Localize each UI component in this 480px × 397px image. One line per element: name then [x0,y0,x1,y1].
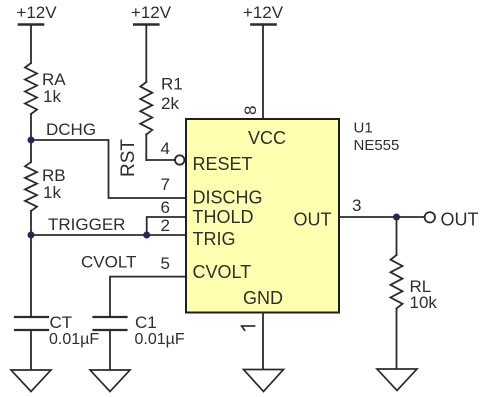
svg-text:TRIGGER: TRIGGER [48,215,125,234]
svg-text:5: 5 [161,254,170,273]
svg-text:2k: 2k [161,94,179,113]
capacitor CT [15,317,48,330]
terminal OUT (open circle) [425,212,435,222]
resistor R1 [140,82,152,160]
svg-text:+12V: +12V [243,3,284,22]
IC pin labels [193,128,332,308]
wire C1 to ground [109,331,111,370]
svg-text:10k: 10k [410,293,438,312]
ground symbol 1 [11,370,51,392]
resistor RB labels [42,166,66,202]
power +12V rail 1 (bar) [19,25,43,64]
svg-text:3: 3 [352,196,361,215]
resistor RA [25,63,37,140]
pin 4 inversion bubble [175,155,184,164]
svg-text:1k: 1k [43,87,61,106]
wire OUT pin 3 [339,216,425,218]
wire CT to ground [30,331,32,370]
svg-text:TRIG: TRIG [193,229,236,249]
wire TRIGGER net to pin 2 [31,234,186,236]
IC U1 NE555 body [186,119,339,313]
svg-text:R1: R1 [161,75,183,94]
wire THOLD branch to pin 6 [147,217,186,235]
ground symbol 3 [244,370,284,392]
node OUT junction dot [393,214,400,221]
power +12V rail 2 (bar) [134,25,158,83]
svg-text:OUT: OUT [441,210,479,230]
svg-text:0.01µF: 0.01µF [135,331,185,348]
svg-text:CT: CT [50,313,73,332]
resistor RB [25,140,37,235]
svg-text:CVOLT: CVOLT [81,253,136,272]
svg-text:8: 8 [241,106,260,115]
node DCHG junction dot [28,137,35,144]
node TRIGGER junction dot [28,232,35,239]
resistor RA labels [42,70,66,106]
svg-text:DISCHG: DISCHG [193,188,263,208]
svg-text:NE555: NE555 [354,137,400,154]
pin number 1 (rotated) [242,326,255,330]
wire CVOLT net [110,277,186,316]
svg-text:OUT: OUT [294,210,332,230]
node junction dot at THOLD branch [143,232,150,239]
svg-text:4: 4 [161,139,170,158]
IC U1 reference labels [354,120,400,155]
wire GND pin 1 [262,313,264,370]
ground symbol 4 [377,369,417,391]
svg-text:GND: GND [243,288,283,308]
svg-text:VCC: VCC [248,128,286,148]
svg-text:CVOLT: CVOLT [193,262,252,282]
capacitor C1 labels [135,313,185,348]
resistor RL [391,217,403,369]
resistor RL labels [410,277,438,312]
svg-text:+12V: +12V [131,3,172,22]
capacitor C1 [94,317,127,330]
wire RST to pin 4 [146,159,175,161]
svg-text:C1: C1 [135,313,157,332]
svg-text:6: 6 [161,198,170,217]
svg-text:RST: RST [118,139,139,177]
capacitor CT labels [49,313,99,348]
svg-text:0.01µF: 0.01µF [49,331,99,348]
svg-text:DCHG: DCHG [46,120,96,139]
svg-text:2: 2 [161,216,170,235]
power +12V rail 3 (bar) [252,25,276,120]
svg-text:RESET: RESET [193,154,253,174]
svg-text:U1: U1 [354,120,373,137]
ground symbol 2 [90,370,130,392]
svg-text:7: 7 [161,175,170,194]
wire DCHG net to pin 7 [31,140,186,198]
svg-text:+12V: +12V [16,3,57,22]
resistor R1 labels [161,75,183,114]
svg-text:1k: 1k [43,183,61,202]
wire left rail down to CT [30,235,32,316]
svg-text:THOLD: THOLD [193,207,254,227]
